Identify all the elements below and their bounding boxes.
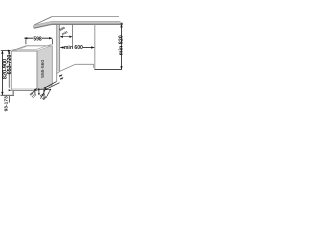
counter front bottom edge bbox=[34, 24, 120, 28]
floor baseline left bbox=[1, 94, 15, 96]
dimension min 600 bbox=[60, 45, 94, 51]
box front right edge bbox=[36, 51, 38, 90]
niche floor back edge bbox=[75, 63, 93, 65]
extension line box top left bbox=[1, 50, 11, 52]
dimension 598 bbox=[24, 36, 52, 44]
svg-text:93-173: 93-173 bbox=[4, 96, 10, 112]
svg-text:min 600: min 600 bbox=[64, 45, 83, 51]
box right side face bbox=[37, 46, 52, 91]
leader with text 90-170 bbox=[32, 89, 37, 94]
slide-in diagonal guide 2 bbox=[46, 83, 59, 90]
svg-text:min 820: min 820 bbox=[119, 35, 125, 55]
dimension 653-720 bbox=[7, 51, 13, 92]
box front left edge bbox=[10, 51, 12, 90]
box top inner left diagonal bbox=[12, 47, 27, 52]
counter front top edge bbox=[34, 21, 120, 25]
niche floor perspective left edge bbox=[60, 64, 76, 71]
counter tip edge bbox=[33, 25, 35, 28]
vertical leader under counter bbox=[72, 25, 74, 48]
niche right wall bbox=[94, 25, 96, 70]
box side bottom edge bbox=[37, 85, 52, 90]
box back right edge bbox=[51, 46, 53, 85]
svg-text:598: 598 bbox=[33, 36, 42, 42]
svg-text:653-720: 653-720 bbox=[7, 55, 13, 75]
leader with text 535 bbox=[41, 89, 46, 98]
dimension min 540 depth bbox=[59, 26, 73, 38]
appliance box top face bbox=[11, 46, 52, 51]
niche floor right bbox=[94, 69, 121, 71]
vertical tick at 38.5 bbox=[38, 88, 40, 94]
counter top back edge bbox=[52, 16, 120, 18]
bottom cluster: horizontal line with dots bbox=[38, 89, 50, 91]
niche left wall bbox=[57, 25, 60, 71]
box front bottom edge bbox=[11, 88, 37, 90]
counter left cut diagonal bbox=[34, 17, 52, 25]
dimension min 820 bbox=[119, 23, 125, 70]
box top inner front edge bbox=[12, 44, 51, 49]
niche floor corner tick bbox=[93, 64, 95, 68]
counter front face slab bbox=[34, 21, 120, 28]
left foot bbox=[12, 91, 14, 95]
small arrows near wall bottom bbox=[60, 74, 63, 76]
dimension 93-173 bbox=[4, 96, 10, 112]
floor front short diagonal bbox=[56, 71, 59, 73]
right foot bbox=[34, 91, 36, 94]
svg-text:555-560: 555-560 bbox=[40, 60, 46, 78]
dimension 820-900 bbox=[1, 51, 8, 95]
slide-in diagonal guide 1 bbox=[45, 82, 57, 88]
vertical tick at 44 bbox=[43, 89, 45, 101]
